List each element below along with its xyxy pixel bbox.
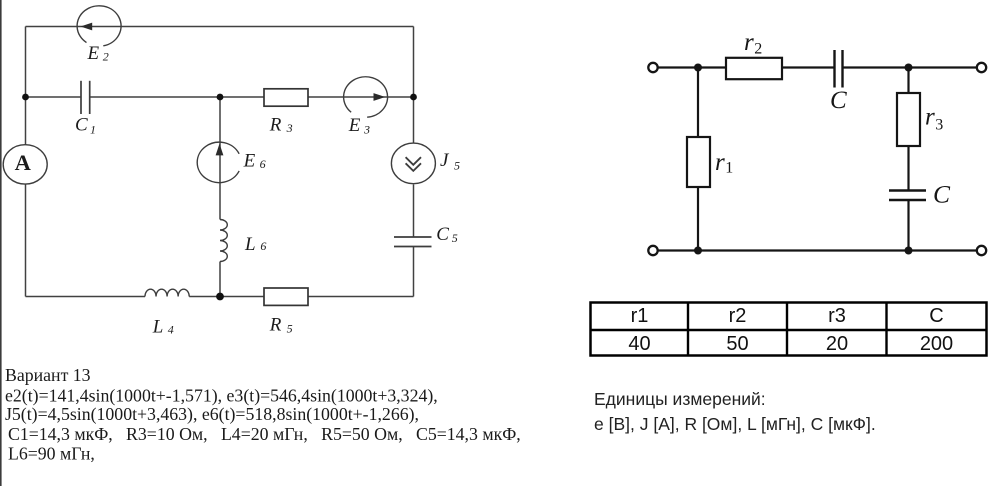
table row divider xyxy=(591,329,987,331)
wire: left vertical, ammeter to bottom-left corner xyxy=(25,184,27,296)
wire: left vertical, top segment to ammeter xyxy=(25,27,27,145)
svg-text:6: 6 xyxy=(260,157,266,171)
svg-text:r1: r1 xyxy=(631,305,649,327)
E2 arrow xyxy=(81,23,93,31)
wire: r1 branch upper segment xyxy=(697,68,699,138)
svg-text:3: 3 xyxy=(363,122,370,136)
svg-text:r: r xyxy=(925,103,935,130)
wire: top wire through E2 xyxy=(26,26,414,28)
wire: shunt C lower segment xyxy=(907,200,909,251)
terminal bottom-left xyxy=(648,246,657,255)
svg-text:R: R xyxy=(269,315,282,336)
inductor L6 xyxy=(220,220,227,262)
voltage source E3 circle xyxy=(344,77,388,117)
wire: bottom wire L4 to R5 xyxy=(189,296,264,298)
capacitor C (series) xyxy=(835,50,843,88)
svg-text:E: E xyxy=(243,151,256,172)
svg-text:J: J xyxy=(440,150,450,171)
svg-text:L6=90 мГн,: L6=90 мГн, xyxy=(8,444,95,464)
wire: right vertical node C to J5 xyxy=(413,97,415,143)
svg-text:1: 1 xyxy=(725,160,733,177)
svg-text:1: 1 xyxy=(90,122,96,136)
wire: bottom wire R5 to bottom-right corner xyxy=(308,296,414,298)
node r1-bottom xyxy=(694,247,702,255)
wire: right circuit bottom wire xyxy=(658,249,977,251)
svg-text:5: 5 xyxy=(287,322,293,336)
resistor R5 xyxy=(264,288,308,305)
table frame xyxy=(591,303,987,356)
svg-text:200: 200 xyxy=(920,333,953,355)
svg-text:3: 3 xyxy=(286,121,293,135)
table column divider 2 xyxy=(786,303,788,356)
svg-text:C: C xyxy=(933,179,951,208)
units of measurement text block xyxy=(594,389,876,434)
svg-text:6: 6 xyxy=(260,239,266,253)
terminal top-left xyxy=(648,63,657,72)
wire: middle horizontal C1 to node B xyxy=(90,96,264,98)
wire: r3 branch upper segment xyxy=(907,68,909,94)
wire: r3 to shunt C segment xyxy=(907,146,909,190)
svg-text:r: r xyxy=(744,29,754,56)
svg-text:r: r xyxy=(715,149,725,176)
svg-text:C: C xyxy=(830,87,847,114)
wire: r1 branch lower segment xyxy=(697,187,699,251)
terminal top-right xyxy=(977,63,986,72)
wire: bottom wire left segment to L4 xyxy=(26,296,146,298)
svg-text:C: C xyxy=(929,305,943,327)
voltage source E2 circle xyxy=(77,6,121,46)
svg-text:r3: r3 xyxy=(828,305,846,327)
svg-text:A: A xyxy=(15,150,32,175)
node C (right junction) xyxy=(410,94,417,101)
svg-text:2: 2 xyxy=(754,40,762,57)
wire: C to top right terminal xyxy=(843,66,977,68)
svg-text:5: 5 xyxy=(454,159,460,173)
wire: middle horizontal left segment to C1 xyxy=(26,96,81,98)
page left border xyxy=(0,0,2,486)
svg-text:5: 5 xyxy=(452,231,458,245)
svg-text:2: 2 xyxy=(103,50,109,64)
problem statement text block (Вариант 13) xyxy=(5,365,521,464)
capacitor C (shunt) xyxy=(889,191,926,201)
wire: right circuit top wire xyxy=(658,66,726,68)
svg-text:L: L xyxy=(152,317,164,338)
svg-text:C: C xyxy=(436,224,449,245)
svg-text:R: R xyxy=(269,115,282,136)
wire: right vertical C5 to bottom-right corner xyxy=(413,247,415,297)
node r1-top xyxy=(694,64,702,72)
node r3-top xyxy=(905,64,913,72)
capacitor C5 xyxy=(394,237,432,247)
table column divider 3 xyxy=(885,303,887,356)
svg-text:С1=14,3 мкФ, R3=10 Ом, L4=: С1=14,3 мкФ, R3=10 Ом, L4=20 мГн, R5=50 … xyxy=(8,424,521,444)
J5 double chevron xyxy=(406,157,421,171)
svg-text:40: 40 xyxy=(628,333,650,355)
svg-text:Единицы измерений:: Единицы измерений: xyxy=(594,389,766,409)
svg-text:20: 20 xyxy=(826,333,848,355)
svg-text:L: L xyxy=(244,234,256,255)
resistor R3 xyxy=(264,89,308,106)
resistor r3 xyxy=(897,93,920,146)
wire: middle branch node B down through E6 to L6 xyxy=(219,97,221,220)
voltage source E6 circle xyxy=(197,142,239,182)
E6 arrow xyxy=(216,144,224,156)
terminal bottom-right xyxy=(977,246,986,255)
inductor L4 xyxy=(145,289,189,296)
svg-text:E: E xyxy=(348,115,361,136)
svg-text:C: C xyxy=(75,115,88,136)
E3 arrow xyxy=(374,93,386,101)
node B (center junction) xyxy=(217,94,224,101)
wire: r2 to C top xyxy=(782,66,834,68)
wire: right vertical from top corner to node C xyxy=(413,27,415,98)
node D (bottom junction) xyxy=(216,293,224,301)
svg-text:r2: r2 xyxy=(729,305,747,327)
svg-text:50: 50 xyxy=(726,333,748,355)
resistor r1 xyxy=(687,137,710,187)
svg-text:E: E xyxy=(87,43,100,64)
wire: right vertical J5 to C5 xyxy=(413,185,415,238)
svg-text:3: 3 xyxy=(935,117,943,134)
svg-text:4: 4 xyxy=(168,323,174,337)
wire: middle horizontal R3 to right node through E3 xyxy=(308,96,414,98)
svg-text:Вариант 13: Вариант 13 xyxy=(5,365,91,385)
table column divider 1 xyxy=(687,303,689,356)
ammeter A circle xyxy=(3,145,47,184)
svg-text:е [В], J [А], R [Ом], L [мГн],: е [В], J [А], R [Ом], L [мГн], С [мкФ]. xyxy=(594,414,876,434)
node A (left-middle junction) xyxy=(22,94,29,101)
wire: middle branch L6 to bottom node D xyxy=(219,262,221,297)
svg-text:J5(t)=4,5sin(1000t+3,463), e6(: J5(t)=4,5sin(1000t+3,463), e6(t)=518,8si… xyxy=(5,404,419,425)
capacitor C1 xyxy=(81,81,90,114)
node r3-bottom xyxy=(905,247,913,255)
resistor r2 xyxy=(726,58,782,79)
current source J5 circle xyxy=(391,143,435,184)
